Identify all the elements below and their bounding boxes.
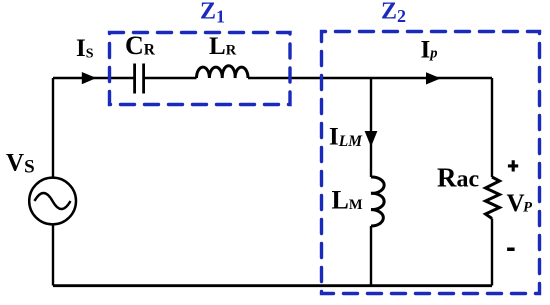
label I_S [76,35,94,62]
label I_p [421,37,438,64]
wire: top wire right segment from inductor to top-right corner [248,77,492,79]
capacitor C_R [135,64,144,94]
svg-text:Z1: Z1 [200,0,225,26]
current arrow I_LM on branch [365,131,378,147]
wire: right vertical upper segment [491,78,493,177]
label L_M [332,186,363,215]
svg-text:Ip: Ip [421,37,438,64]
inductor L_M [371,177,384,226]
label Z2 [381,0,406,26]
current arrow I_S on top wire [82,72,97,84]
impedance box Z1 (dashed blue) [110,33,291,105]
inductor L_R [197,66,249,78]
svg-text:CR: CR [125,31,156,60]
wire: L_M branch upper segment [370,78,372,177]
svg-text:LM: LM [332,186,363,215]
label I_LM [329,124,363,151]
wire: left vertical from top wire to source [52,78,54,178]
label V_P [507,190,533,217]
wire: right vertical lower segment [491,219,493,286]
label Z1 [200,0,225,26]
svg-text:Rac: Rac [437,163,480,193]
plus polarity mark [508,160,518,171]
label L_R [209,33,237,60]
sine symbol inside source [35,193,71,209]
svg-text:VS: VS [6,150,35,178]
svg-text:ILM: ILM [329,124,363,151]
wire: between capacitor and inductor [144,77,197,79]
impedance box Z2 (dashed blue) [322,32,540,294]
wire: left vertical from source to bottom wire [52,224,54,285]
svg-text:VP: VP [507,190,533,217]
svg-text:LR: LR [209,33,237,60]
label R_ac [437,163,480,193]
label C_R [125,31,156,60]
label V_S [6,150,35,178]
svg-text:Z2: Z2 [381,0,406,26]
wire: bottom wire [53,284,492,287]
resistor R_ac zigzag [486,177,500,219]
wire: L_M branch lower segment [370,226,372,286]
minus polarity mark [507,248,514,252]
svg-text:IS: IS [76,35,94,62]
wire: top wire left segment from source corner to capacitor [53,77,134,79]
current arrow I_p on top wire [426,72,441,84]
AC source V_S circle [29,178,76,225]
